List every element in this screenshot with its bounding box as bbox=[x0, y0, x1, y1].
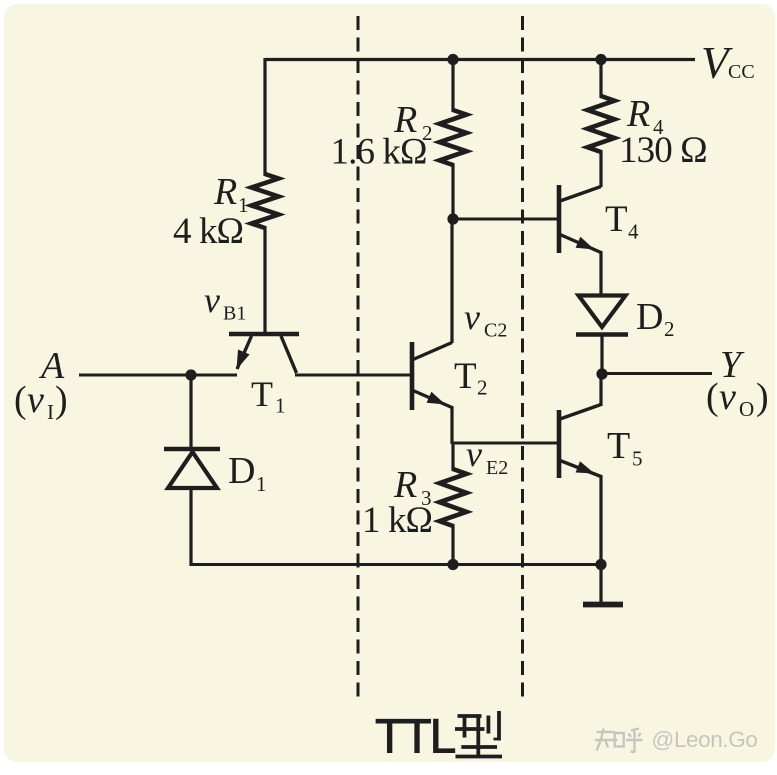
svg-text:1.6 kΩ: 1.6 kΩ bbox=[331, 132, 427, 173]
svg-text:D: D bbox=[636, 296, 663, 338]
svg-text:CC: CC bbox=[728, 61, 755, 83]
svg-text:I: I bbox=[47, 400, 54, 424]
svg-text:1: 1 bbox=[256, 472, 267, 496]
svg-text:T: T bbox=[251, 374, 273, 414]
svg-text:B1: B1 bbox=[223, 303, 246, 325]
svg-text:1 kΩ: 1 kΩ bbox=[362, 500, 432, 541]
svg-text:130 Ω: 130 Ω bbox=[619, 130, 707, 171]
svg-text:E2: E2 bbox=[486, 457, 508, 479]
svg-text:1: 1 bbox=[275, 394, 286, 418]
svg-text:4: 4 bbox=[628, 220, 639, 244]
svg-text:5: 5 bbox=[632, 447, 643, 471]
svg-text:O: O bbox=[739, 397, 754, 421]
svg-text:T: T bbox=[605, 199, 628, 240]
svg-text:v: v bbox=[466, 434, 482, 474]
svg-text:): ) bbox=[756, 376, 769, 418]
svg-text:(: ( bbox=[706, 376, 719, 418]
svg-text:T: T bbox=[454, 356, 477, 397]
svg-text:2: 2 bbox=[664, 317, 675, 341]
svg-text:TTL: TTL bbox=[375, 711, 456, 764]
svg-text:v: v bbox=[204, 280, 220, 320]
svg-text:D: D bbox=[228, 450, 255, 492]
svg-text:v: v bbox=[27, 379, 44, 421]
svg-text:v: v bbox=[464, 297, 480, 337]
svg-text:C2: C2 bbox=[484, 320, 507, 342]
svg-text:R: R bbox=[213, 171, 237, 213]
svg-text:(: ( bbox=[14, 379, 27, 421]
svg-text:T: T bbox=[607, 425, 630, 467]
svg-text:2: 2 bbox=[477, 376, 488, 400]
svg-text:4 kΩ: 4 kΩ bbox=[173, 211, 243, 252]
svg-text:R: R bbox=[626, 93, 650, 135]
svg-text:): ) bbox=[55, 379, 68, 421]
svg-text:v: v bbox=[719, 376, 736, 418]
svg-text:@Leon.Go: @Leon.Go bbox=[652, 727, 758, 752]
